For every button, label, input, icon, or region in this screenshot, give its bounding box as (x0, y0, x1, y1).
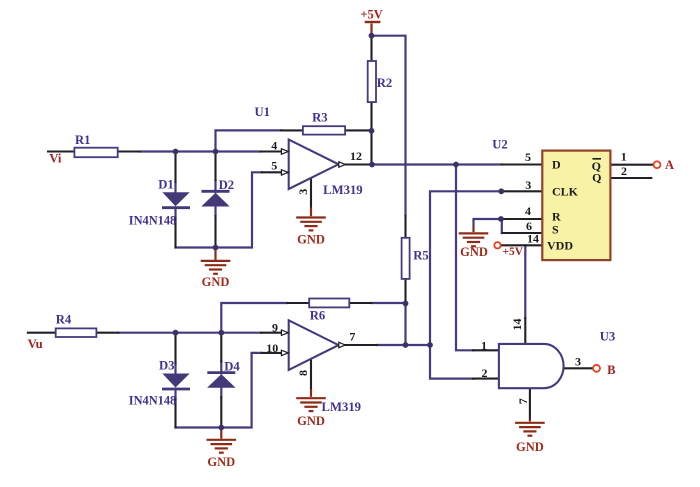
svg-text:3: 3 (525, 178, 531, 192)
svg-text:R5: R5 (413, 249, 429, 263)
svg-text:4: 4 (271, 139, 277, 153)
svg-text:3: 3 (575, 354, 581, 368)
svg-text:R: R (552, 209, 561, 223)
svg-text:U1: U1 (254, 105, 270, 119)
svg-text:B: B (607, 363, 616, 377)
svg-text:R3: R3 (312, 111, 328, 125)
svg-text:4: 4 (525, 204, 531, 218)
svg-text:R4: R4 (56, 313, 72, 327)
svg-text:GND: GND (516, 440, 544, 454)
svg-text:3: 3 (296, 189, 310, 195)
svg-text:IN4N148: IN4N148 (129, 394, 177, 408)
svg-text:D2: D2 (219, 178, 235, 192)
svg-text:9: 9 (272, 321, 278, 335)
svg-text:Vi: Vi (49, 151, 62, 165)
svg-text:GND: GND (207, 455, 235, 469)
svg-text:CLK: CLK (552, 185, 579, 199)
svg-text:1: 1 (621, 150, 627, 164)
svg-text:S: S (552, 223, 559, 237)
svg-text:R1: R1 (75, 133, 91, 147)
svg-text:8: 8 (296, 370, 310, 376)
svg-text:12: 12 (350, 149, 362, 163)
svg-text:10: 10 (266, 341, 278, 355)
svg-text:LM319: LM319 (323, 183, 362, 197)
svg-text:5: 5 (271, 159, 277, 173)
svg-text:U2: U2 (492, 137, 508, 151)
svg-text:R2: R2 (377, 76, 393, 90)
svg-text:LM319: LM319 (322, 400, 361, 414)
svg-text:GND: GND (297, 414, 325, 428)
svg-text:U3: U3 (600, 330, 616, 344)
svg-text:2: 2 (482, 366, 488, 380)
svg-text:1: 1 (481, 338, 487, 352)
svg-text:14: 14 (510, 319, 524, 331)
svg-text:GND: GND (297, 232, 325, 246)
svg-text:R6: R6 (310, 308, 326, 322)
svg-text:5: 5 (525, 150, 531, 164)
svg-text:2: 2 (621, 164, 627, 178)
svg-text:14: 14 (527, 232, 539, 246)
svg-text:D4: D4 (224, 359, 240, 373)
svg-text:7: 7 (349, 330, 355, 344)
svg-text:D1: D1 (158, 177, 174, 191)
svg-text:Vu: Vu (28, 337, 43, 351)
svg-text:7: 7 (516, 398, 530, 404)
svg-text:D: D (552, 158, 561, 172)
svg-text:IN4N148: IN4N148 (129, 214, 177, 228)
svg-text:+5V: +5V (360, 8, 382, 22)
svg-text:Q: Q (592, 170, 601, 184)
svg-text:A: A (665, 158, 675, 172)
svg-text:D3: D3 (159, 359, 175, 373)
svg-text:+5V: +5V (502, 246, 523, 258)
svg-text:GND: GND (202, 275, 230, 289)
svg-text:VDD: VDD (547, 238, 573, 252)
svg-text:GND: GND (460, 245, 488, 259)
